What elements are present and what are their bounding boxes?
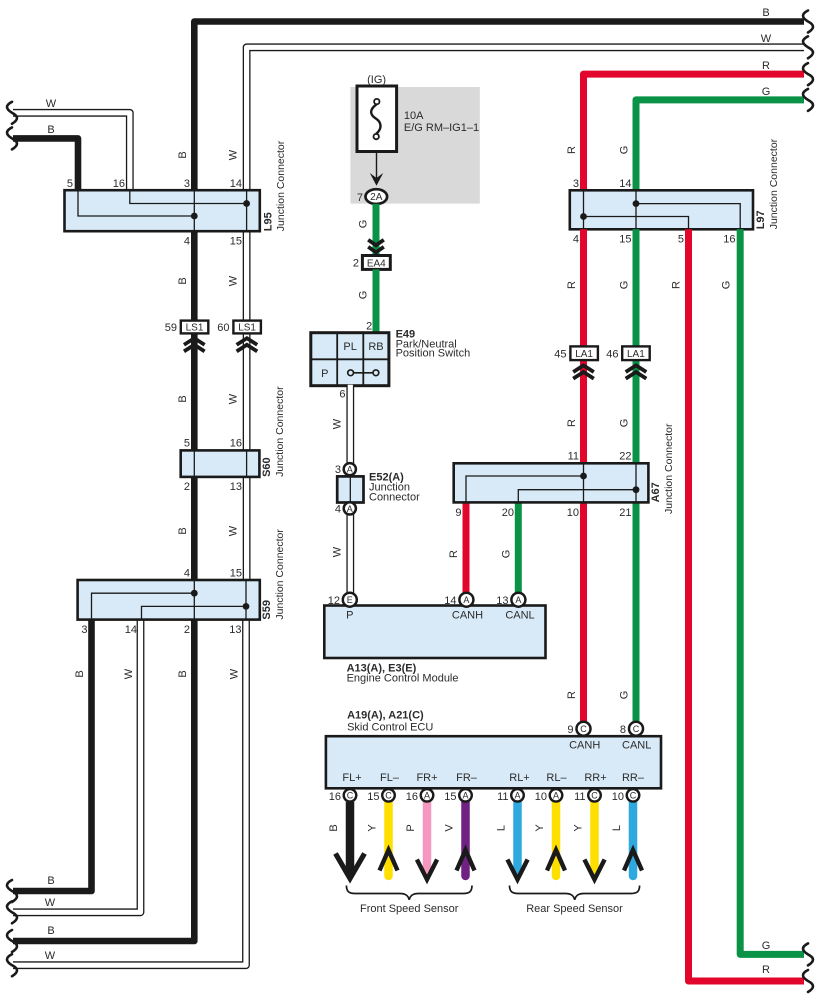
wire B from left edge into L95 pin 5 <box>13 138 78 190</box>
node junction in L97 pins 3-5 <box>580 213 587 220</box>
svg-text:16: 16 <box>406 791 418 803</box>
svg-text:14: 14 <box>230 178 242 190</box>
wire W from S59 pin 14 to bottom-left edge <box>13 619 141 913</box>
label L97 Junction Connector <box>755 138 780 229</box>
svg-text:9: 9 <box>567 724 573 736</box>
svg-text:12: 12 <box>328 595 340 607</box>
svg-text:6: 6 <box>339 389 345 401</box>
svg-text:G: G <box>358 291 370 300</box>
svg-text:15: 15 <box>444 791 456 803</box>
svg-text:Junction Connector: Junction Connector <box>275 140 287 231</box>
break symbol G top right <box>803 89 813 111</box>
wire W from S59 pin 13 to bottom-left edge <box>13 619 246 966</box>
label E52(A) Junction Connector <box>369 472 420 504</box>
svg-text:W: W <box>45 897 56 909</box>
svg-text:W: W <box>123 668 135 679</box>
svg-text:11: 11 <box>568 451 579 463</box>
svg-text:3: 3 <box>184 178 190 190</box>
svg-text:R: R <box>566 691 578 699</box>
label E49 Park/Neutral Position Switch <box>396 329 471 360</box>
ECM terminal names <box>346 610 535 622</box>
break symbol R top right <box>803 63 813 85</box>
pin numbers S60 <box>184 438 242 494</box>
svg-text:CANH: CANH <box>569 740 600 752</box>
svg-text:16: 16 <box>329 791 341 803</box>
skid ECU sensor terminal names <box>342 772 645 784</box>
svg-text:Skid Control ECU: Skid Control ECU <box>347 722 433 734</box>
svg-text:20: 20 <box>502 507 514 519</box>
svg-text:45: 45 <box>554 349 566 361</box>
svg-text:Junction Connector: Junction Connector <box>274 386 286 477</box>
svg-text:G: G <box>501 550 513 559</box>
pin numbers L95 <box>67 178 242 248</box>
label A13(A), E3(E) Engine Control Module <box>347 663 459 685</box>
svg-text:Engine Control Module: Engine Control Module <box>347 673 459 685</box>
svg-text:PL: PL <box>343 341 356 353</box>
skid control ECU A19(A) A21(C) <box>326 736 661 788</box>
svg-text:2: 2 <box>184 624 190 636</box>
label W <box>332 546 344 557</box>
svg-text:FR–: FR– <box>456 772 478 784</box>
svg-text:W: W <box>228 525 240 536</box>
svg-text:2: 2 <box>366 321 372 333</box>
labels B W on left wire runs <box>45 149 241 962</box>
svg-text:4: 4 <box>573 234 579 246</box>
svg-text:W: W <box>332 546 344 557</box>
svg-text:4: 4 <box>184 568 190 580</box>
label G top right <box>762 86 771 98</box>
svg-text:B: B <box>328 824 340 831</box>
connector 2A pin 7 <box>357 189 387 204</box>
shaded power-source area <box>350 87 479 204</box>
svg-text:B: B <box>74 670 86 677</box>
node junction in L95 pins 5-3 <box>191 213 198 220</box>
wire G from L97 pin 15 through LA1 to A67 pin 22 <box>633 229 640 463</box>
svg-text:3: 3 <box>573 178 579 190</box>
label B left <box>47 124 54 136</box>
svg-text:EA4: EA4 <box>367 258 386 269</box>
wire W from L95 pin 15 down through LS1 and S60 to S59 pin 15 <box>243 230 251 581</box>
svg-text:15: 15 <box>230 236 242 248</box>
connector LA1 pin 46 on wire G <box>606 346 649 378</box>
label L95 Junction Connector <box>263 140 288 231</box>
break symbol B bottom left 2 <box>7 930 17 952</box>
svg-text:8: 8 <box>620 724 626 736</box>
node junction in L95 pins 16-14 <box>243 200 250 207</box>
svg-text:15: 15 <box>619 234 631 246</box>
pin 16 C of skid ECU FL+ <box>329 789 357 803</box>
svg-text:Junction Connector: Junction Connector <box>663 423 675 514</box>
label B top right <box>762 7 769 19</box>
label A67 Junction Connector <box>650 423 675 514</box>
svg-text:60: 60 <box>217 322 229 334</box>
svg-text:CANL: CANL <box>622 740 651 752</box>
wire Y FL- sensor <box>367 802 398 876</box>
svg-text:2: 2 <box>184 481 190 493</box>
svg-text:10A: 10A <box>404 110 424 122</box>
svg-text:16: 16 <box>113 178 125 190</box>
brace rear speed sensor <box>510 886 640 916</box>
connector LA1 pin 45 on wire R <box>554 346 598 378</box>
svg-text:Y: Y <box>534 824 546 832</box>
svg-text:CANL: CANL <box>505 610 534 622</box>
svg-text:A: A <box>514 791 520 801</box>
break symbol B top right <box>803 11 813 33</box>
svg-text:Junction Connector: Junction Connector <box>274 529 286 620</box>
svg-text:FL+: FL+ <box>342 772 361 784</box>
svg-text:(IG): (IG) <box>367 74 386 86</box>
svg-text:A: A <box>347 504 353 514</box>
junction connector L97 <box>570 190 753 229</box>
svg-text:P: P <box>405 824 417 831</box>
pin 12 E of ECM <box>328 593 357 607</box>
svg-text:W: W <box>228 393 240 404</box>
pin 13 A of ECM <box>496 593 525 607</box>
wire P FR+ sensor <box>405 802 437 880</box>
wire B FL+ sensor <box>328 802 365 879</box>
connector LS1 pin 60 on wire W <box>217 321 261 352</box>
pin 14 A of ECM <box>444 593 473 607</box>
svg-text:A: A <box>462 791 468 801</box>
connector LS1 pin 59 on wire B <box>165 321 209 352</box>
svg-text:C: C <box>630 791 637 801</box>
svg-text:22: 22 <box>619 451 631 463</box>
wire G from A67 pin 20 to ECM pin 13 CANL <box>515 502 522 594</box>
svg-text:B: B <box>762 7 769 19</box>
label G <box>358 291 370 300</box>
svg-text:B: B <box>47 925 54 937</box>
svg-text:B: B <box>177 527 189 534</box>
svg-text:Junction Connector: Junction Connector <box>768 138 780 229</box>
break symbol B bottom left 1 <box>7 880 17 902</box>
node junction in S59 pins 14-13 <box>243 603 250 610</box>
pin numbers A67 <box>455 451 631 520</box>
pin 8 C of skid ECU <box>620 722 643 736</box>
svg-text:V: V <box>444 824 456 832</box>
break symbol R bottom right <box>803 970 813 992</box>
svg-text:G: G <box>762 940 771 952</box>
svg-text:E/G RM–IG1–1: E/G RM–IG1–1 <box>404 122 479 134</box>
svg-text:R: R <box>566 281 578 289</box>
svg-text:14: 14 <box>444 595 456 607</box>
junction connector S60 <box>181 450 260 477</box>
svg-text:B: B <box>47 124 54 136</box>
svg-text:A: A <box>347 465 353 475</box>
svg-text:G: G <box>619 691 631 700</box>
svg-text:B: B <box>177 670 189 677</box>
node junction in S59 pins 3-2 <box>191 590 198 597</box>
pin 10 C of skid ECU RR- <box>612 789 640 803</box>
label R <box>448 550 460 558</box>
svg-text:RR–: RR– <box>622 772 645 784</box>
svg-text:E: E <box>347 595 353 605</box>
svg-text:LS1: LS1 <box>186 323 204 334</box>
svg-text:5: 5 <box>67 178 73 190</box>
svg-text:R: R <box>762 964 770 976</box>
svg-text:Y: Y <box>367 824 379 832</box>
svg-text:B: B <box>177 151 189 158</box>
wire W from E49 pin 6 to E52 <box>346 385 354 464</box>
wire G from 2A to EA4 <box>373 204 380 256</box>
svg-text:RL+: RL+ <box>509 772 530 784</box>
wire R from L97 pin 5 to bottom right edge <box>689 229 805 981</box>
label G <box>358 220 370 229</box>
pin 15 C of skid ECU FL- <box>367 789 395 803</box>
svg-text:G: G <box>721 281 733 290</box>
wire G from L97 pin 16 to bottom right edge <box>740 229 804 954</box>
wire B from S59 pin 2 to bottom-left edge <box>13 620 194 941</box>
svg-text:7: 7 <box>357 192 363 204</box>
svg-text:G: G <box>619 146 631 155</box>
junction connector S59 <box>78 580 260 620</box>
wire G from top-right down to L97 pin 14 <box>636 100 804 190</box>
label R top right <box>762 60 770 72</box>
break symbol W left <box>7 102 17 124</box>
label G <box>501 550 513 559</box>
svg-text:14: 14 <box>619 178 631 190</box>
label S59 Junction Connector <box>261 529 286 620</box>
svg-text:LA1: LA1 <box>575 349 593 360</box>
svg-text:Y: Y <box>573 824 585 832</box>
svg-text:W: W <box>228 149 240 160</box>
park/neutral position switch E49 <box>311 333 389 386</box>
pin 2 of E49 <box>366 321 372 333</box>
label W <box>332 418 344 429</box>
svg-text:R: R <box>762 60 770 72</box>
wire Y RL- sensor <box>534 802 565 876</box>
svg-text:LA1: LA1 <box>627 349 645 360</box>
svg-text:5: 5 <box>678 234 684 246</box>
label A19(A), A21(C) Skid Control ECU <box>347 710 433 734</box>
connector EA4 pin 2 with chevrons <box>353 240 390 270</box>
svg-text:G: G <box>619 281 631 290</box>
wire R from top-right down to L97 pin 3 <box>584 74 805 190</box>
svg-text:4: 4 <box>335 504 341 516</box>
svg-text:W: W <box>45 950 56 962</box>
svg-text:A67: A67 <box>650 482 662 502</box>
svg-text:Rear Speed Sensor: Rear Speed Sensor <box>526 903 623 915</box>
wire L RR- sensor <box>611 802 642 876</box>
node junction in A67 pins 22-20 <box>633 486 640 493</box>
wire R from A67 pin 9 to ECM pin 14 CANH <box>463 502 470 594</box>
label W top right <box>761 33 772 45</box>
wire W from E52 to ECM pin 12 <box>346 508 354 594</box>
svg-text:C: C <box>385 791 392 801</box>
svg-text:FL–: FL– <box>380 772 400 784</box>
wire R from L97 pin 4 through LA1 to A67 pin 11 <box>580 229 587 463</box>
svg-text:RB: RB <box>368 341 383 353</box>
svg-text:W: W <box>228 275 240 286</box>
svg-text:5: 5 <box>184 438 190 450</box>
junction connector L95 <box>65 190 260 231</box>
break symbol G bottom right <box>803 943 813 965</box>
svg-text:C: C <box>347 791 354 801</box>
svg-text:P: P <box>321 368 328 380</box>
svg-text:S60: S60 <box>261 457 273 477</box>
svg-text:G: G <box>619 419 631 428</box>
pin numbers L97 <box>573 178 736 246</box>
svg-text:R: R <box>448 550 460 558</box>
svg-text:A: A <box>424 791 430 801</box>
svg-text:Position Switch: Position Switch <box>396 348 471 360</box>
svg-text:3: 3 <box>335 464 341 476</box>
fuse 10A E/G RM-IG1-1 <box>357 74 479 152</box>
pin 9 C of skid ECU <box>567 722 590 736</box>
node junction in L97 pins 14-16 <box>633 200 640 207</box>
svg-text:L: L <box>611 825 623 831</box>
svg-text:3: 3 <box>81 624 87 636</box>
svg-text:13: 13 <box>229 624 241 636</box>
pin 10 A of skid ECU RL- <box>535 789 563 803</box>
wire V FR- sensor <box>444 802 475 876</box>
svg-text:C: C <box>633 724 640 734</box>
svg-text:4: 4 <box>184 236 190 248</box>
break symbol W top right <box>803 36 813 58</box>
svg-text:15: 15 <box>367 791 379 803</box>
label S60 Junction Connector <box>261 386 286 477</box>
svg-text:C: C <box>580 724 587 734</box>
svg-text:10: 10 <box>567 507 579 519</box>
svg-text:B: B <box>177 277 189 284</box>
wire B from S59 pin 3 to bottom-left edge <box>13 620 92 891</box>
svg-text:B: B <box>177 395 189 402</box>
svg-text:11: 11 <box>497 791 508 803</box>
svg-text:A: A <box>553 791 559 801</box>
wire B from top-left down to L95 pin 3, across to right edge <box>194 22 804 191</box>
svg-text:11: 11 <box>574 791 585 803</box>
svg-text:R: R <box>566 419 578 427</box>
labels R G on right wire runs <box>566 146 770 976</box>
svg-text:16: 16 <box>723 234 735 246</box>
svg-text:2: 2 <box>353 258 359 270</box>
label W left <box>46 98 57 110</box>
brace front speed sensor <box>346 886 472 916</box>
svg-text:B: B <box>47 875 54 887</box>
svg-text:FR+: FR+ <box>416 772 437 784</box>
wire G from A67 pin 21 to skid control ECU pin 8 <box>633 502 640 722</box>
wire L RL+ sensor <box>496 802 528 880</box>
engine control module A13(A) E3(E) <box>324 606 545 659</box>
svg-text:S59: S59 <box>261 600 273 620</box>
svg-text:9: 9 <box>455 507 461 519</box>
svg-text:L95: L95 <box>263 212 275 231</box>
svg-text:59: 59 <box>165 322 177 334</box>
skid ECU CAN terminal names <box>569 740 651 752</box>
break symbol W bottom left 1 <box>7 901 17 923</box>
svg-text:13: 13 <box>496 595 508 607</box>
svg-text:A: A <box>515 595 521 605</box>
svg-text:W: W <box>761 33 772 45</box>
svg-text:2A: 2A <box>370 192 383 203</box>
junction connector A67 <box>454 463 649 502</box>
pin numbers S59 <box>81 568 242 637</box>
svg-text:W: W <box>332 418 344 429</box>
pin 11 C of skid ECU RR+ <box>574 789 601 803</box>
svg-text:LS1: LS1 <box>238 323 256 334</box>
svg-text:13: 13 <box>230 481 242 493</box>
junction connector E52(A) <box>335 463 364 515</box>
wire B from L95 pin 4 down through LS1 and S60 to S59 pin 4 <box>191 231 198 580</box>
svg-text:R: R <box>671 281 683 289</box>
svg-text:10: 10 <box>612 791 624 803</box>
svg-text:CANH: CANH <box>452 610 483 622</box>
wire R from A67 pin 10 to skid control ECU pin 9 <box>580 502 587 722</box>
svg-text:14: 14 <box>125 624 137 636</box>
node junction in A67 pins 11-9 <box>580 473 587 480</box>
svg-text:C: C <box>591 791 598 801</box>
svg-text:A: A <box>463 595 469 605</box>
break symbol W bottom left 2 <box>7 954 17 976</box>
pin 11 A of skid ECU RL+ <box>497 789 524 803</box>
svg-text:L97: L97 <box>755 210 767 229</box>
wire from fuse to connector 2A <box>370 152 383 186</box>
svg-text:16: 16 <box>230 438 242 450</box>
svg-text:Connector: Connector <box>369 492 420 504</box>
wire W from top-right down to L95 pin 14 <box>247 47 806 191</box>
pin 16 A of skid ECU FR+ <box>406 789 434 803</box>
svg-text:Front Speed Sensor: Front Speed Sensor <box>360 903 459 915</box>
svg-text:21: 21 <box>619 507 631 519</box>
svg-text:RR+: RR+ <box>584 772 606 784</box>
svg-text:46: 46 <box>606 349 618 361</box>
wire W from left edge into L95 pin 16 <box>13 113 130 191</box>
svg-text:W: W <box>46 98 57 110</box>
svg-text:10: 10 <box>535 791 547 803</box>
pin 15 A of skid ECU FR- <box>444 789 472 803</box>
svg-text:R: R <box>566 146 578 154</box>
svg-text:P: P <box>346 610 353 622</box>
wire Y RR+ sensor <box>573 802 605 880</box>
svg-text:A19(A), A21(C): A19(A), A21(C) <box>347 710 424 722</box>
svg-text:L: L <box>496 825 508 831</box>
svg-text:G: G <box>358 220 370 229</box>
svg-text:G: G <box>762 86 771 98</box>
wire G from EA4 to E49 pin 2 <box>373 269 380 332</box>
break symbol B left <box>7 127 17 149</box>
svg-text:15: 15 <box>230 568 242 580</box>
svg-text:W: W <box>229 668 241 679</box>
svg-text:RL–: RL– <box>546 772 567 784</box>
pin 6 of E49 <box>339 389 345 401</box>
